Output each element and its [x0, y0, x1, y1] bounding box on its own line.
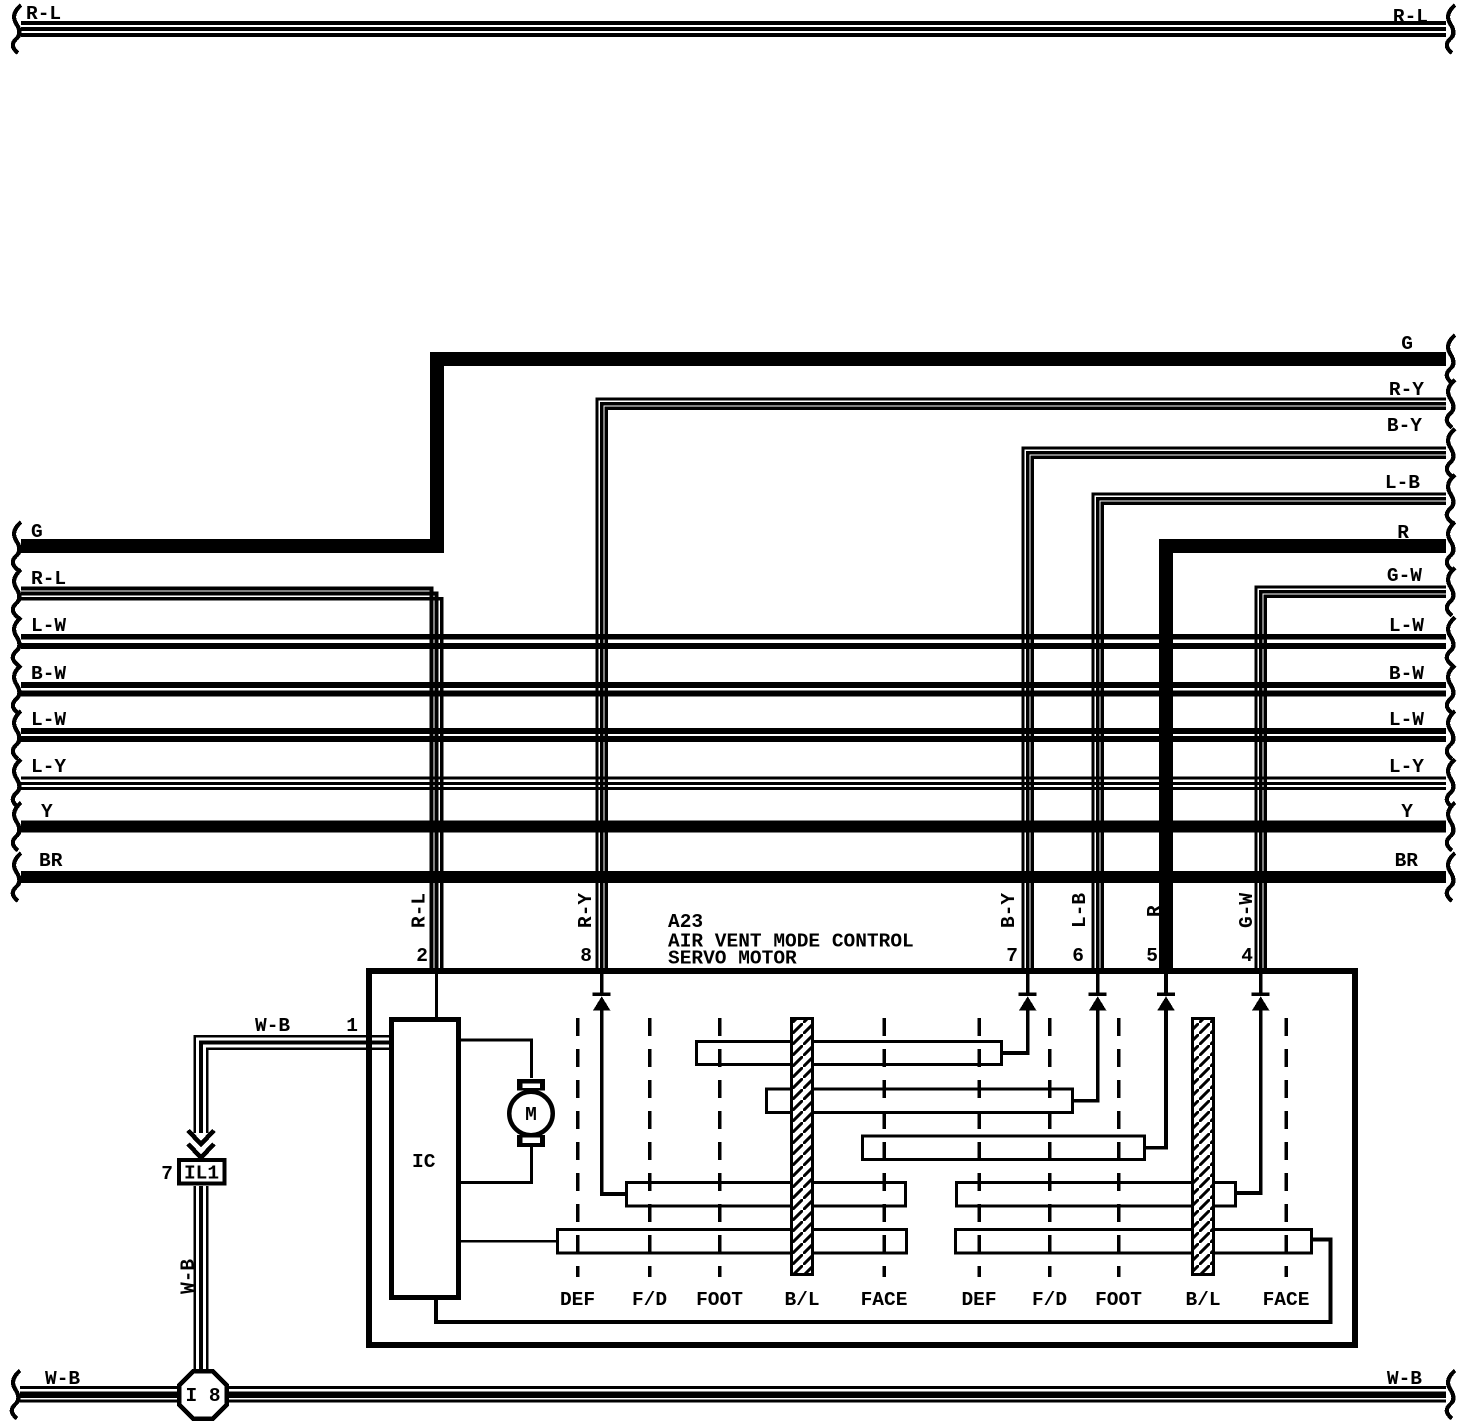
break squiggle B-W left — [13, 665, 21, 713]
dashed position line DEF (right group) — [977, 1018, 981, 1277]
svg-text:B/L: B/L — [784, 1289, 819, 1311]
component IC block — [392, 1020, 459, 1298]
wire diode D7 output to contact bar 1 — [1001, 1008, 1028, 1053]
svg-text:BR: BR — [1395, 850, 1419, 872]
wire IC to contact bar 6 — [459, 1240, 558, 1243]
svg-text:SERVO MOTOR: SERVO MOTOR — [668, 948, 797, 970]
svg-text:8: 8 — [580, 945, 592, 967]
wiper bar B/L left (hatched) — [792, 1019, 813, 1275]
svg-text:R: R — [1144, 905, 1166, 917]
svg-text:6: 6 — [1072, 945, 1084, 967]
break squiggle BR left — [13, 853, 21, 901]
svg-text:B-W: B-W — [31, 663, 66, 685]
svg-text:L-W: L-W — [31, 709, 66, 731]
svg-text:L-W: L-W — [31, 615, 66, 637]
dashed position line DEF (left group) — [576, 1018, 580, 1277]
break squiggle L-W left — [13, 617, 21, 665]
break squiggle R-Y right — [1447, 380, 1455, 428]
wire R-L left bus + vertical drop to pin 2 (triple line) — [21, 588, 442, 971]
wire R bus + vertical drop to pin 5 (thick) — [1166, 546, 1446, 971]
break squiggle L-Y left — [13, 759, 21, 807]
svg-text:Y: Y — [41, 801, 53, 823]
break squiggle B-Y right — [1447, 429, 1455, 477]
break squiggle R right — [1447, 522, 1455, 570]
wire L-W bus 2 (double line, full width) — [21, 731, 1446, 739]
junction connector I8 octagon — [179, 1371, 227, 1419]
svg-text:R-Y: R-Y — [575, 893, 597, 928]
svg-text:R-L: R-L — [26, 3, 61, 25]
wiper bar B/L right (hatched) — [1193, 1019, 1214, 1275]
dashed position line FACE (right group) — [1284, 1018, 1288, 1277]
chevron continuation arrow above IL1 — [188, 1131, 214, 1158]
break squiggle W-B bottom right — [1447, 1371, 1455, 1419]
wire diode D8 output to contact bar 4 — [602, 1008, 627, 1194]
wire Y bus (thick, full width) — [21, 821, 1446, 833]
break squiggle L-B right — [1447, 475, 1455, 523]
svg-text:M: M — [525, 1104, 537, 1126]
svg-text:W-B: W-B — [178, 1259, 200, 1294]
break squiggle BR right — [1447, 853, 1455, 901]
svg-text:B/L: B/L — [1185, 1289, 1220, 1311]
component A23 servo motor outer box — [369, 971, 1355, 1345]
svg-text:L-Y: L-Y — [31, 756, 66, 778]
diode D7 at pin 7 — [1019, 974, 1037, 1010]
wire pin 2 internal lead to IC — [435, 974, 438, 1020]
contact bar 3 — [863, 1136, 1145, 1160]
break squiggle Y left — [13, 803, 21, 851]
svg-text:L-W: L-W — [1389, 615, 1424, 637]
svg-text:B-Y: B-Y — [998, 893, 1020, 928]
break squiggle top R-L right — [1447, 5, 1455, 53]
svg-text:4: 4 — [1241, 945, 1253, 967]
contact bar 1 — [697, 1042, 1002, 1065]
svg-text:7: 7 — [1006, 945, 1018, 967]
break squiggle top R-L left — [13, 5, 21, 53]
svg-text:L-W: L-W — [1389, 709, 1424, 731]
wire W-B bottom-left bus (thin/thick/thin) — [20, 1388, 178, 1402]
wire B-Y bus + vertical drop to pin 7 (triple line) — [1023, 448, 1446, 971]
svg-text:DEF: DEF — [560, 1289, 595, 1311]
dashed position line FOOT (left group) — [718, 1018, 722, 1277]
svg-text:G-W: G-W — [1236, 893, 1258, 928]
break squiggle L-W2 left — [13, 711, 21, 759]
break squiggle Y right — [1447, 803, 1455, 851]
break squiggle R-L left — [13, 570, 21, 618]
contact bar 7 — [956, 1230, 1312, 1254]
contact bar 4 — [627, 1183, 906, 1207]
svg-text:IL1: IL1 — [184, 1163, 219, 1185]
component motor M bottom brush — [517, 1135, 545, 1147]
break squiggle B-W right — [1447, 665, 1455, 713]
wire IC bottom loop to contact bar 7 — [436, 1240, 1331, 1323]
svg-text:FOOT: FOOT — [696, 1289, 743, 1311]
break squiggle L-W right — [1447, 617, 1455, 665]
svg-text:2: 2 — [416, 945, 428, 967]
wire IC to motor top brush — [459, 1040, 532, 1078]
svg-text:W-B: W-B — [255, 1015, 290, 1037]
component motor M circle — [509, 1092, 553, 1136]
wire L-Y bus (thin triple line, full width) — [21, 778, 1446, 789]
svg-text:IC: IC — [412, 1151, 436, 1173]
break squiggle L-Y right — [1447, 759, 1455, 807]
svg-text:1: 1 — [346, 1015, 358, 1037]
contact bar 6 — [558, 1230, 907, 1254]
svg-text:L-Y: L-Y — [1389, 756, 1424, 778]
svg-text:5: 5 — [1146, 945, 1158, 967]
wire diode D6 output to contact bar 2 — [1072, 1008, 1098, 1101]
diode D4 at pin 4 — [1252, 974, 1270, 1010]
wire W-B bottom-right bus (thin/thick/thin) — [228, 1388, 1446, 1402]
wire G-W bus + vertical drop to pin 4 (triple line) — [1256, 587, 1446, 971]
wire L-B bus + vertical drop to pin 6 (triple line) — [1093, 494, 1446, 971]
svg-text:G: G — [1401, 333, 1413, 355]
wire G bus (left run y546, vertical x437, top-right run y359, thick) — [21, 359, 1446, 546]
svg-text:L-B: L-B — [1385, 472, 1420, 494]
component motor M top brush — [517, 1079, 545, 1091]
svg-text:FACE: FACE — [1263, 1289, 1310, 1311]
contact bar 2 — [767, 1089, 1073, 1113]
svg-text:L-B: L-B — [1069, 893, 1091, 928]
wire W-B from IL1 down to junction I8 (triple line) — [195, 1186, 207, 1372]
break squiggle G-W right — [1447, 568, 1455, 616]
svg-text:BR: BR — [39, 850, 63, 872]
svg-text:B-W: B-W — [1389, 663, 1424, 685]
svg-text:W-B: W-B — [1387, 1368, 1422, 1390]
wire motor bottom brush to IC — [459, 1144, 532, 1183]
svg-text:W-B: W-B — [45, 1368, 80, 1390]
svg-text:R: R — [1397, 522, 1409, 544]
svg-text:DEF: DEF — [961, 1289, 996, 1311]
svg-text:FACE: FACE — [861, 1289, 908, 1311]
wire diode D4 output to contact bar 5 — [1235, 1008, 1261, 1193]
wire B-W bus (double line, full width) — [21, 685, 1446, 694]
break squiggle G left — [13, 522, 21, 570]
contact bar 5 — [957, 1183, 1236, 1207]
diode D5 at pin 5 — [1157, 974, 1175, 1010]
svg-text:R-L: R-L — [409, 893, 431, 928]
dashed position line FOOT (right group) — [1117, 1018, 1121, 1277]
wire W-B from pin 1 to corner and down to chevron (triple line) — [195, 1036, 389, 1133]
svg-text:G: G — [31, 521, 43, 543]
svg-text:FOOT: FOOT — [1095, 1289, 1142, 1311]
break squiggle W-B bottom left — [12, 1371, 20, 1419]
diode D6 at pin 6 — [1089, 974, 1107, 1010]
wire diode D5 output to contact bar 3 — [1144, 1008, 1166, 1148]
svg-text:F/D: F/D — [1032, 1289, 1067, 1311]
wire R-Y bus + vertical drop to pin 8 (triple line) — [597, 399, 1446, 971]
svg-text:F/D: F/D — [632, 1289, 667, 1311]
connector IL1 box — [179, 1160, 225, 1184]
break squiggle G right — [1447, 335, 1455, 383]
svg-text:B-Y: B-Y — [1387, 415, 1422, 437]
svg-text:R-L: R-L — [31, 568, 66, 590]
wire BR bus (thick, full width) — [21, 871, 1446, 883]
svg-text:Y: Y — [1401, 801, 1413, 823]
wire R-L top bus (triple line) — [21, 23, 1446, 35]
break squiggle L-W2 right — [1447, 711, 1455, 759]
dashed position line F/D (right group) — [1048, 1018, 1052, 1277]
wire L-W bus 1 (double line, full width) — [21, 637, 1446, 646]
svg-text:I 8: I 8 — [185, 1385, 220, 1407]
dashed position line F/D (left group) — [648, 1018, 652, 1277]
diode D8 at pin 8 — [593, 974, 611, 1010]
svg-text:R-L: R-L — [1393, 6, 1428, 28]
dashed position line FACE (left group) — [882, 1018, 886, 1277]
svg-text:R-Y: R-Y — [1389, 379, 1424, 401]
svg-text:7: 7 — [161, 1163, 173, 1185]
svg-text:G-W: G-W — [1387, 565, 1422, 587]
